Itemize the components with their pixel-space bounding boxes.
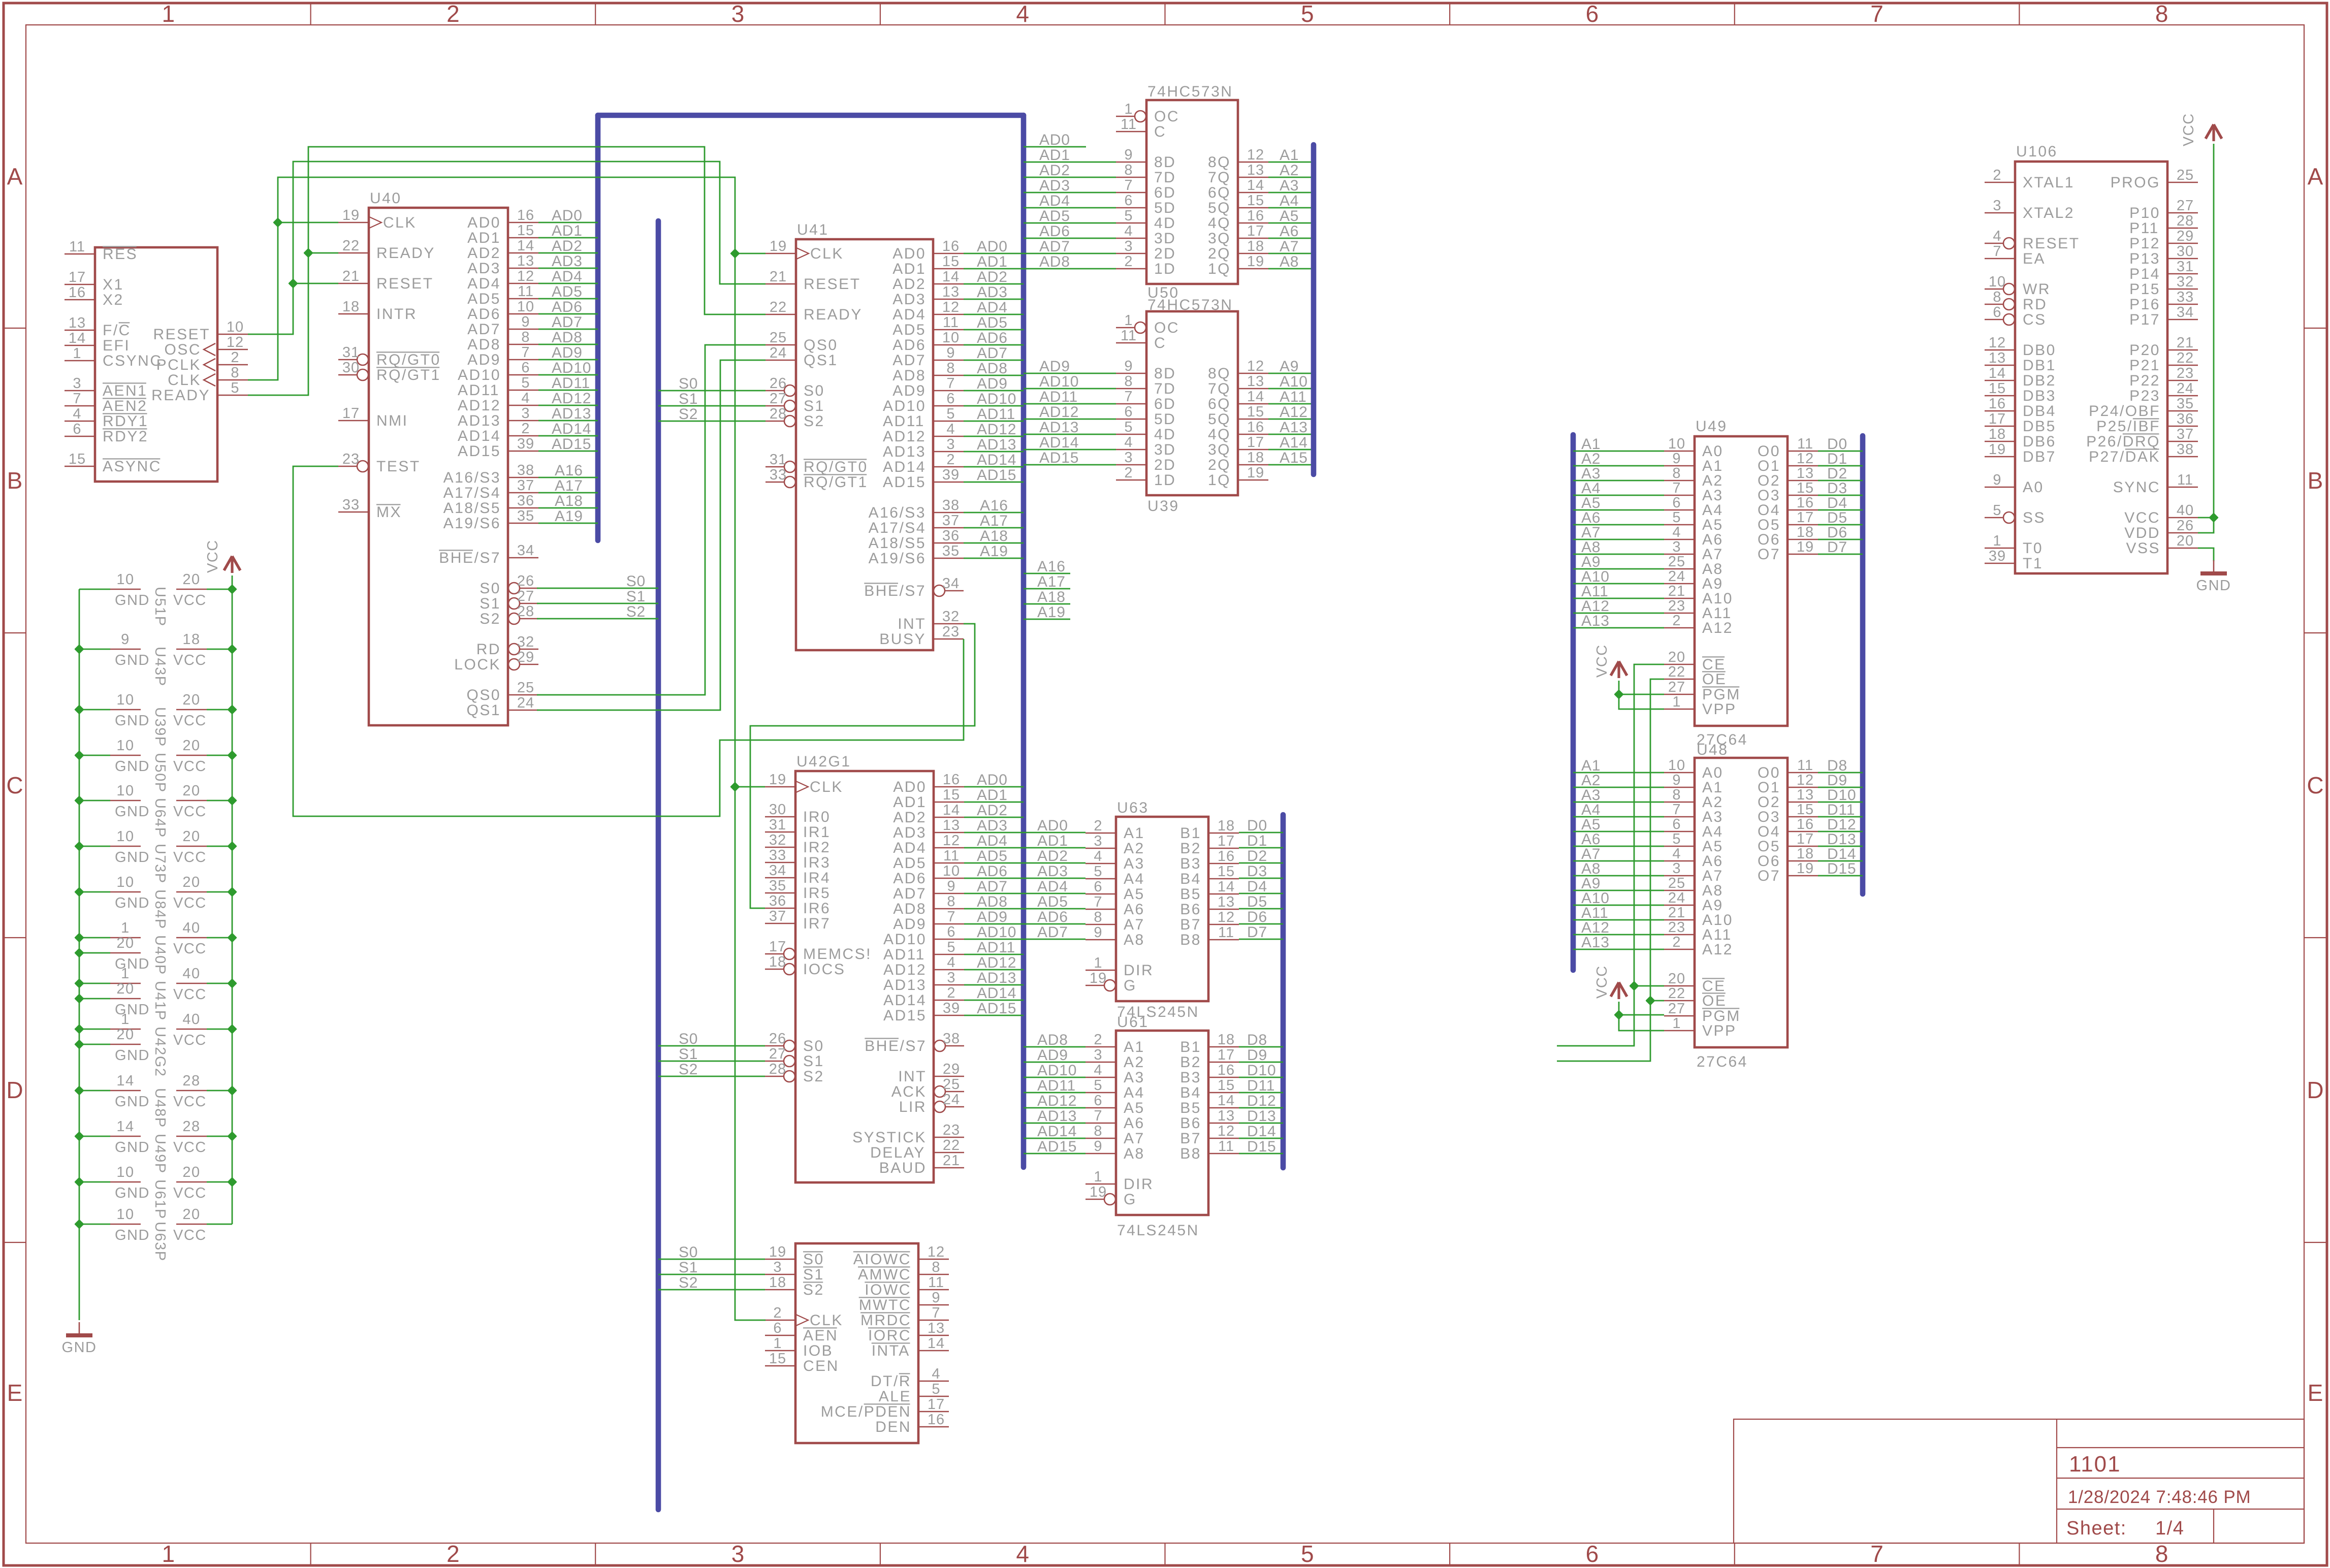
svg-text:13: 13 [517, 253, 534, 269]
svg-text:CEN: CEN [803, 1358, 839, 1374]
svg-text:P23: P23 [2129, 388, 2160, 404]
svg-text:15: 15 [69, 451, 86, 467]
power supply pins U73P [79, 828, 232, 884]
svg-text:2: 2 [521, 421, 530, 437]
svg-text:5: 5 [1672, 509, 1681, 526]
wires 8288 S0-S2 from bus B [658, 1244, 765, 1291]
svg-text:A16: A16 [1037, 558, 1066, 575]
svg-text:OE: OE [1702, 671, 1727, 688]
svg-text:AD1: AD1 [893, 794, 927, 811]
svg-text:BHE/S7: BHE/S7 [865, 1038, 927, 1054]
svg-text:VDD: VDD [2124, 525, 2160, 541]
svg-text:18: 18 [182, 631, 200, 648]
svg-text:AD6: AD6 [977, 330, 1008, 346]
svg-text:16: 16 [943, 772, 960, 788]
svg-text:5D: 5D [1154, 411, 1176, 428]
svg-text:20: 20 [116, 981, 134, 997]
svg-text:NMI: NMI [376, 412, 408, 429]
svg-text:AD6: AD6 [1039, 223, 1070, 240]
svg-text:A5: A5 [1280, 208, 1299, 225]
svg-text:CLK: CLK [168, 372, 201, 389]
svg-text:S2: S2 [626, 603, 646, 620]
svg-text:S0: S0 [480, 580, 501, 597]
svg-text:A4: A4 [1124, 1084, 1145, 1101]
svg-text:18: 18 [1797, 524, 1814, 540]
svg-text:17: 17 [1218, 1047, 1235, 1063]
svg-text:17: 17 [1247, 223, 1264, 239]
bus D (D0-D15 data bus) [1281, 815, 1286, 1168]
svg-text:14: 14 [1218, 879, 1235, 895]
svg-text:PROG: PROG [2111, 174, 2160, 191]
svg-text:1101: 1101 [2069, 1452, 2121, 1477]
svg-text:A6: A6 [1124, 1115, 1145, 1132]
svg-text:4: 4 [1124, 223, 1133, 239]
svg-text:P26/DRQ: P26/DRQ [2086, 433, 2160, 450]
svg-text:32: 32 [517, 634, 534, 650]
svg-text:VCC: VCC [173, 652, 207, 668]
svg-text:O7: O7 [1758, 546, 1780, 563]
svg-text:U63P: U63P [152, 1222, 168, 1262]
svg-text:AD1: AD1 [1039, 147, 1070, 164]
svg-text:15: 15 [517, 222, 534, 239]
svg-text:C: C [2307, 772, 2323, 798]
svg-text:AD7: AD7 [467, 321, 501, 338]
svg-text:DT/R: DT/R [871, 1373, 911, 1390]
svg-text:A8: A8 [1124, 1145, 1145, 1162]
svg-text:30: 30 [769, 802, 786, 818]
svg-text:S2: S2 [679, 406, 698, 423]
svg-text:RESET: RESET [376, 275, 434, 292]
svg-text:AD3: AD3 [977, 284, 1008, 301]
svg-text:A17: A17 [980, 513, 1008, 529]
svg-text:3: 3 [947, 970, 955, 986]
svg-text:12: 12 [942, 299, 960, 315]
svg-text:U41P: U41P [152, 981, 168, 1021]
svg-text:GND: GND [115, 713, 150, 729]
power supply pins U63P [79, 1206, 232, 1262]
svg-text:27: 27 [2177, 198, 2194, 214]
svg-text:1: 1 [162, 1, 175, 27]
svg-text:14: 14 [116, 1073, 134, 1089]
svg-text:AD11: AD11 [977, 939, 1015, 956]
svg-text:AD13: AD13 [552, 405, 591, 422]
svg-text:4Q: 4Q [1208, 426, 1231, 443]
wires U39 outputs A9-A15 [1268, 358, 1314, 466]
svg-text:2Q: 2Q [1208, 245, 1231, 262]
svg-text:1: 1 [1993, 533, 2001, 549]
power supply pins U51P [79, 571, 232, 627]
svg-text:18: 18 [342, 299, 360, 315]
svg-text:34: 34 [2177, 304, 2194, 321]
svg-text:DB2: DB2 [2023, 372, 2056, 389]
svg-text:DB4: DB4 [2023, 403, 2056, 420]
svg-text:17: 17 [1989, 411, 2006, 427]
svg-text:37: 37 [942, 513, 960, 529]
svg-text:AD3: AD3 [1037, 863, 1068, 880]
svg-text:16: 16 [517, 207, 534, 223]
svg-text:AD0: AD0 [977, 238, 1008, 255]
title block (sheet info) [1734, 1419, 2304, 1543]
svg-text:4: 4 [521, 390, 530, 406]
svg-text:LIR: LIR [899, 1099, 927, 1115]
svg-text:AD2: AD2 [892, 276, 926, 293]
svg-text:EA: EA [2023, 250, 2046, 267]
svg-text:A7: A7 [1280, 238, 1299, 255]
svg-text:A8: A8 [1124, 932, 1145, 948]
svg-text:AD9: AD9 [1039, 358, 1070, 375]
svg-text:AD0: AD0 [977, 772, 1008, 788]
svg-text:U42G2: U42G2 [152, 1027, 168, 1077]
svg-text:A1: A1 [1280, 147, 1299, 164]
wire RESET net (clock gen to U40/U41) [248, 162, 765, 334]
svg-text:D5: D5 [1247, 893, 1267, 910]
svg-text:1: 1 [1124, 101, 1133, 117]
svg-text:6: 6 [773, 1320, 782, 1336]
svg-text:IORC: IORC [868, 1327, 911, 1344]
svg-text:A13: A13 [1581, 613, 1610, 629]
svg-text:AD9: AD9 [893, 916, 927, 933]
svg-text:AD4: AD4 [892, 306, 926, 323]
svg-text:1: 1 [73, 345, 81, 362]
svg-text:A17: A17 [555, 477, 583, 494]
svg-text:8: 8 [1094, 909, 1102, 925]
svg-text:S0: S0 [804, 382, 825, 399]
svg-text:D9: D9 [1247, 1047, 1267, 1064]
svg-text:31: 31 [2177, 259, 2194, 275]
svg-text:P10: P10 [2129, 205, 2160, 221]
svg-text:AD2: AD2 [893, 809, 927, 826]
svg-text:A18/S5: A18/S5 [869, 535, 926, 552]
svg-text:D: D [2307, 1077, 2323, 1103]
svg-text:27: 27 [1668, 679, 1685, 695]
svg-text:22: 22 [342, 238, 360, 254]
svg-text:18: 18 [769, 954, 786, 970]
svg-text:B1: B1 [1180, 1039, 1201, 1055]
wire OE net U49-U48 [1557, 679, 1664, 1061]
wire CE net U49-U48 [1557, 664, 1664, 1046]
svg-text:7Q: 7Q [1208, 380, 1231, 397]
svg-text:AD14: AD14 [883, 459, 926, 475]
svg-text:16: 16 [1989, 396, 2006, 412]
svg-text:22: 22 [1668, 664, 1685, 680]
svg-text:B1: B1 [1180, 825, 1201, 842]
svg-text:14: 14 [1247, 177, 1264, 194]
svg-text:11: 11 [1797, 757, 1813, 774]
svg-text:6: 6 [947, 924, 955, 940]
svg-text:GND: GND [115, 1139, 150, 1156]
svg-text:15: 15 [769, 1351, 786, 1367]
svg-text:20: 20 [182, 571, 200, 588]
svg-text:17: 17 [69, 269, 86, 285]
svg-text:A12: A12 [1702, 941, 1733, 958]
svg-text:RDY1: RDY1 [103, 413, 148, 430]
svg-text:CLK: CLK [810, 245, 844, 262]
svg-text:4: 4 [932, 1366, 940, 1382]
svg-text:30: 30 [342, 360, 360, 376]
svg-text:7: 7 [1672, 480, 1681, 496]
svg-text:O7: O7 [1758, 868, 1780, 884]
svg-text:IR4: IR4 [803, 870, 831, 886]
svg-text:9: 9 [1672, 451, 1681, 467]
wires U61 B1-B8 to bus D (D8-D15) [1239, 1032, 1283, 1155]
svg-text:AD11: AD11 [977, 406, 1015, 423]
svg-text:C: C [1154, 123, 1166, 140]
svg-text:A2: A2 [1280, 162, 1299, 179]
svg-text:AD5: AD5 [1037, 893, 1068, 910]
svg-text:DB0: DB0 [2023, 342, 2056, 359]
svg-text:VCC: VCC [173, 941, 207, 957]
svg-text:U40: U40 [370, 190, 402, 207]
svg-text:22: 22 [943, 1137, 960, 1154]
svg-text:23: 23 [2177, 365, 2194, 381]
svg-text:A7: A7 [1124, 916, 1145, 933]
svg-text:AD10: AD10 [883, 398, 926, 414]
svg-text:10: 10 [1668, 757, 1685, 774]
svg-text:X2: X2 [103, 292, 124, 308]
svg-text:18: 18 [1797, 846, 1814, 862]
svg-text:13: 13 [1218, 1108, 1235, 1124]
wire INT net (U41 INT to U42 IR6) [750, 624, 975, 908]
svg-text:20: 20 [182, 874, 200, 890]
svg-text:A: A [2308, 164, 2323, 190]
svg-text:6: 6 [1672, 495, 1681, 511]
svg-text:40: 40 [182, 920, 200, 936]
svg-text:8: 8 [1094, 1123, 1102, 1139]
svg-text:A4: A4 [1280, 193, 1299, 209]
svg-text:1: 1 [1672, 694, 1681, 710]
svg-text:3: 3 [773, 1259, 782, 1275]
svg-text:AD15: AD15 [883, 1007, 927, 1024]
svg-text:1: 1 [121, 920, 130, 936]
wires U42G1 S0-S2 from bus B [658, 1031, 765, 1078]
svg-text:DB7: DB7 [2023, 449, 2056, 465]
svg-text:1: 1 [162, 1541, 175, 1567]
svg-text:S2: S2 [804, 413, 825, 430]
svg-text:8: 8 [1124, 162, 1133, 178]
wires U40 S0-S2 to bus B [537, 573, 658, 620]
svg-text:18: 18 [1218, 1032, 1235, 1048]
svg-text:19: 19 [1247, 465, 1264, 481]
power supply pins U49P [79, 1118, 232, 1174]
wire CLK net (clock gen to U40/U41/U42/8288) [248, 177, 765, 1320]
svg-text:15: 15 [1797, 802, 1814, 818]
svg-text:AD8: AD8 [893, 901, 927, 917]
svg-text:S0: S0 [679, 1244, 698, 1261]
svg-text:GND: GND [115, 1002, 150, 1018]
svg-text:AD14: AD14 [1037, 1123, 1077, 1140]
svg-text:VCC: VCC [2181, 113, 2197, 146]
svg-text:29: 29 [2177, 228, 2194, 244]
svg-text:22: 22 [1668, 985, 1685, 1002]
svg-text:AD14: AD14 [977, 985, 1016, 1002]
svg-text:2: 2 [1094, 818, 1102, 834]
svg-text:P16: P16 [2129, 296, 2160, 313]
svg-text:A16/S3: A16/S3 [443, 469, 501, 486]
bus B (S0-S2 status bus long vertical) [656, 221, 661, 1510]
svg-text:5: 5 [231, 380, 239, 396]
svg-text:VCC: VCC [173, 1139, 207, 1156]
svg-text:AD8: AD8 [977, 360, 1008, 377]
svg-text:RQ/GT0: RQ/GT0 [804, 459, 868, 475]
svg-text:37: 37 [517, 477, 534, 494]
svg-text:A10: A10 [1280, 373, 1308, 390]
svg-text:8: 8 [947, 893, 955, 910]
svg-text:S0: S0 [679, 1031, 698, 1047]
svg-text:B6: B6 [1180, 1115, 1201, 1132]
svg-text:A16/S3: A16/S3 [869, 504, 926, 521]
svg-text:10: 10 [116, 1164, 134, 1180]
svg-text:11: 11 [1121, 116, 1137, 133]
svg-text:A3: A3 [1124, 855, 1145, 872]
svg-text:S1: S1 [626, 588, 646, 605]
svg-text:14: 14 [1218, 1093, 1235, 1109]
svg-text:11: 11 [943, 314, 959, 331]
svg-text:U48P: U48P [152, 1088, 168, 1128]
svg-text:AD13: AD13 [458, 412, 501, 429]
svg-text:AD9: AD9 [977, 375, 1008, 392]
svg-text:AD15: AD15 [552, 436, 591, 453]
svg-text:31: 31 [769, 817, 786, 833]
svg-text:D8: D8 [1247, 1032, 1267, 1048]
svg-text:14: 14 [1989, 365, 2006, 381]
svg-text:S1: S1 [803, 1266, 824, 1283]
svg-text:P24/OBF: P24/OBF [2089, 403, 2160, 420]
svg-text:D2: D2 [1247, 848, 1267, 865]
svg-text:13: 13 [942, 284, 960, 300]
svg-text:1D: 1D [1154, 261, 1176, 277]
svg-text:20: 20 [182, 1164, 200, 1180]
svg-text:27: 27 [517, 588, 534, 604]
svg-text:A1: A1 [1124, 1039, 1145, 1055]
svg-text:9: 9 [947, 878, 955, 894]
svg-text:A1: A1 [1124, 825, 1145, 842]
svg-text:AD1: AD1 [1037, 833, 1068, 849]
svg-text:AD8: AD8 [977, 893, 1008, 910]
svg-text:11: 11 [2177, 472, 2193, 488]
svg-text:GND: GND [115, 956, 150, 972]
svg-text:AD10: AD10 [1039, 373, 1079, 390]
svg-text:GND: GND [2196, 578, 2231, 594]
wires U41 S0-S2 from bus B [658, 375, 765, 423]
svg-text:3: 3 [1094, 833, 1102, 849]
svg-text:40: 40 [2177, 502, 2194, 519]
svg-text:AD9: AD9 [552, 344, 583, 361]
svg-text:9: 9 [121, 631, 130, 648]
svg-text:8: 8 [1672, 465, 1681, 482]
svg-text:AD14: AD14 [552, 421, 591, 437]
svg-text:6: 6 [1993, 304, 2001, 321]
svg-text:ACK: ACK [891, 1083, 927, 1100]
svg-text:AD15: AD15 [458, 443, 501, 460]
svg-text:U42G1: U42G1 [796, 753, 851, 770]
svg-text:22: 22 [770, 299, 787, 315]
svg-text:AD10: AD10 [977, 391, 1016, 407]
power supply pins U43P [79, 631, 232, 687]
svg-text:2: 2 [446, 1541, 460, 1567]
svg-text:36: 36 [769, 893, 786, 909]
svg-text:13: 13 [69, 315, 86, 331]
svg-text:GND: GND [115, 895, 150, 911]
svg-text:8: 8 [946, 360, 955, 376]
svg-text:12: 12 [227, 334, 244, 350]
svg-text:7: 7 [1094, 894, 1102, 910]
svg-text:17: 17 [1797, 831, 1814, 847]
svg-text:33: 33 [769, 847, 786, 863]
svg-text:OE: OE [1702, 993, 1727, 1009]
svg-text:AEN2: AEN2 [103, 398, 147, 414]
svg-text:2D: 2D [1154, 245, 1176, 262]
svg-text:T0: T0 [2023, 540, 2043, 557]
svg-text:7: 7 [932, 1305, 940, 1321]
svg-text:VCC: VCC [173, 986, 207, 1003]
svg-text:3: 3 [1124, 450, 1133, 466]
svg-text:24: 24 [1668, 568, 1685, 585]
svg-text:S1: S1 [679, 1046, 698, 1063]
bus top horizontal segment [598, 113, 1024, 118]
svg-text:38: 38 [2177, 441, 2194, 458]
svg-text:74HC573N: 74HC573N [1147, 83, 1233, 100]
svg-text:6: 6 [1672, 816, 1681, 833]
svg-text:AD1: AD1 [977, 787, 1008, 804]
svg-text:IR3: IR3 [803, 854, 831, 871]
svg-text:D15: D15 [1247, 1138, 1276, 1155]
svg-text:12: 12 [1989, 335, 2006, 351]
svg-text:AD4: AD4 [1039, 193, 1070, 209]
svg-text:18: 18 [769, 1274, 786, 1291]
svg-text:29: 29 [943, 1061, 960, 1077]
svg-text:CLK: CLK [383, 214, 417, 231]
svg-text:AD1: AD1 [977, 253, 1008, 270]
svg-text:9: 9 [932, 1290, 940, 1306]
IC bus controller 8288 [765, 1243, 949, 1443]
svg-text:AD5: AD5 [977, 848, 1008, 865]
svg-text:6: 6 [1124, 193, 1133, 209]
svg-text:21: 21 [943, 1153, 960, 1169]
svg-text:2Q: 2Q [1208, 457, 1231, 473]
svg-text:24: 24 [2177, 380, 2194, 397]
svg-text:14: 14 [1247, 389, 1264, 405]
svg-text:33: 33 [770, 467, 787, 483]
svg-text:VCC: VCC [173, 1032, 207, 1048]
svg-text:6: 6 [521, 360, 530, 376]
svg-text:AD9: AD9 [892, 382, 926, 399]
svg-text:2: 2 [946, 452, 955, 468]
svg-text:U106: U106 [2016, 143, 2058, 160]
svg-text:19: 19 [1090, 1184, 1107, 1200]
svg-text:12: 12 [517, 268, 534, 284]
svg-text:READY: READY [376, 245, 435, 262]
svg-text:3: 3 [946, 436, 955, 453]
svg-text:U39: U39 [1147, 498, 1179, 515]
power supply pins U61P [79, 1164, 232, 1220]
svg-text:AD1: AD1 [467, 230, 501, 246]
svg-text:IR1: IR1 [803, 824, 831, 841]
svg-text:23: 23 [1668, 919, 1685, 936]
svg-text:A0: A0 [2023, 479, 2044, 496]
svg-text:8D: 8D [1154, 365, 1176, 382]
svg-text:11: 11 [69, 239, 85, 255]
svg-text:GND: GND [115, 1047, 150, 1064]
svg-text:7: 7 [521, 344, 530, 361]
svg-text:21: 21 [2177, 335, 2194, 351]
svg-text:AD11: AD11 [458, 382, 500, 399]
svg-text:24: 24 [517, 695, 534, 711]
svg-text:A3: A3 [1124, 1069, 1145, 1086]
svg-text:5: 5 [1672, 831, 1681, 847]
svg-text:7: 7 [1870, 1541, 1884, 1567]
svg-text:AD3: AD3 [467, 260, 501, 277]
svg-text:VCC: VCC [173, 713, 207, 729]
